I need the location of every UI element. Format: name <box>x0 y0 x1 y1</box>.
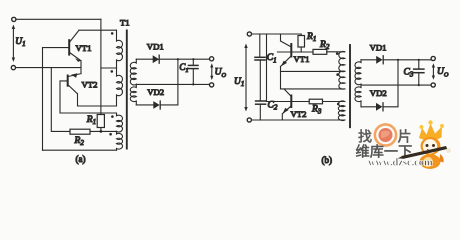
transformer winding S3 (b) <box>338 101 344 120</box>
svg-text:VD2: VD2 <box>147 87 164 97</box>
transformer winding S2 (b) <box>339 71 345 89</box>
wire capacitor rail upper <box>259 34 261 57</box>
wire center-tap riser / R1 feed <box>100 19 102 114</box>
wire VD1 cathode to output plus <box>159 58 209 60</box>
junction R1/R2 <box>100 130 103 133</box>
wire rail branch to R2 <box>51 68 70 132</box>
input terminal bottom (a) <box>11 66 15 70</box>
transformer winding S1 (b) <box>339 51 345 71</box>
svg-text:C1: C1 <box>179 62 188 74</box>
polarity dot primary top <box>111 32 114 35</box>
svg-text:U1: U1 <box>15 37 25 48</box>
wire R1 bottom stub (b) <box>300 47 302 52</box>
resistor R2 (b) <box>313 49 327 54</box>
svg-text:VD2: VD2 <box>370 88 387 98</box>
svg-text:C1: C1 <box>267 53 277 64</box>
watermark emblem ring <box>375 124 396 145</box>
svg-text:R1: R1 <box>86 115 96 126</box>
wire VT1 emitter to rail <box>80 61 82 74</box>
wire VT2 base line (b) <box>267 101 310 103</box>
svg-text:UO: UO <box>437 67 449 79</box>
polarity dot S3 <box>337 103 340 106</box>
svg-text:R2: R2 <box>74 136 85 147</box>
transformer core (b) <box>349 45 351 127</box>
junction VD2 return <box>177 58 179 60</box>
wire VD1 cathode to output (b) <box>383 59 431 61</box>
resistor R3 (b) <box>309 99 322 104</box>
wire VD2 return to top node (b) <box>383 60 398 107</box>
junction C1 bottom <box>192 83 194 85</box>
wire R1 bottom stub <box>100 128 102 132</box>
wire VT1 collector to primary top <box>79 29 117 31</box>
polarity dot feedback lower <box>109 133 112 136</box>
svg-text:R1: R1 <box>306 32 316 43</box>
junction C1 top <box>192 58 194 60</box>
capacitor C1 (b) <box>255 57 265 60</box>
transformer T1 primary winding top <box>117 30 123 68</box>
svg-text:片: 片 <box>398 129 412 146</box>
resistor R1 (b) <box>298 36 305 48</box>
wire top rail (b) <box>252 33 301 35</box>
wire VT2 base to feedback winding top <box>60 81 117 113</box>
wire R1 top stub (b) <box>300 34 302 36</box>
wire VT1 base <box>43 48 70 151</box>
svg-text:R3: R3 <box>311 105 322 116</box>
transformer T1 feedback winding upper <box>117 113 123 132</box>
polarity dot S1 <box>336 52 339 55</box>
polarity dot feedback upper <box>111 115 114 118</box>
wire R2 to feedback center tap <box>90 130 117 132</box>
wire R2 to winding S1 top <box>327 51 345 53</box>
svg-text:找: 找 <box>358 129 372 146</box>
wire R3 to winding S3 top <box>323 101 345 103</box>
watermark mascot <box>398 120 451 169</box>
input terminal top (b) <box>247 32 251 36</box>
svg-text:U1: U1 <box>234 77 244 88</box>
svg-text:(b): (b) <box>322 155 333 165</box>
transistor VT1 <box>69 30 81 62</box>
transformer T1 secondary winding <box>130 59 136 105</box>
junction C3 top <box>418 59 420 61</box>
transistor VT2 <box>68 73 81 94</box>
input terminal bottom (b) <box>247 118 251 122</box>
wire feedback winding bottom to VT1 base line <box>43 149 117 151</box>
wire bottom rail (b) <box>252 119 345 121</box>
diode VD2 (b) <box>376 103 383 111</box>
wire secondary center tap to output (b) <box>361 84 431 86</box>
U_O output arrow (b) <box>432 63 435 79</box>
output terminal plus (a) <box>210 57 214 61</box>
capacitor C1 (a) <box>189 59 199 84</box>
transformer T1 primary winding bottom <box>117 68 123 106</box>
wire secondary center tap to output minus <box>136 83 209 85</box>
U1 input voltage arrow <box>12 25 15 63</box>
diode VD1 (b) <box>376 56 383 64</box>
svg-text:C3: C3 <box>404 68 414 79</box>
transformer T1 feedback winding lower <box>117 131 123 150</box>
transformer T1 core <box>126 30 128 148</box>
wire VD2 return to top node <box>160 59 178 105</box>
output terminal plus (b) <box>431 56 435 60</box>
input terminal top (a) <box>12 17 16 21</box>
svg-text:VD1: VD1 <box>370 42 387 52</box>
polarity dot primary bottom <box>111 70 114 73</box>
junction C3 bottom <box>418 84 420 86</box>
wire midpoint to winding S1 bottom <box>281 70 345 72</box>
wire secondary bottom to VD2 <box>136 104 153 106</box>
svg-text:VT2: VT2 <box>82 80 98 90</box>
output terminal minus (a) <box>210 83 214 87</box>
transformer secondary winding (b) <box>355 60 361 107</box>
polarity dot S2 <box>336 73 339 76</box>
wire secondary top to VD1 <box>136 58 152 60</box>
wire bottom input rail <box>16 67 81 69</box>
wire VT1 base line (b) <box>278 51 314 53</box>
resistor R1 <box>97 115 104 128</box>
transistor VT1 (b) <box>281 34 292 67</box>
wire secondary top to VD1 (b) <box>361 59 376 61</box>
junction VD2 return (b) <box>397 59 399 61</box>
wire capacitor rail lower <box>259 104 261 120</box>
svg-text:VT1: VT1 <box>294 54 310 64</box>
svg-text:C2: C2 <box>268 101 278 112</box>
wire midpoint vertical (b) <box>280 67 282 89</box>
wire capacitor rail middle <box>259 60 261 101</box>
wire primary center tap <box>101 67 117 69</box>
resistor R2 <box>70 129 90 134</box>
U1 input arrow (b) <box>244 44 247 112</box>
svg-text:(a): (a) <box>76 154 86 164</box>
svg-text:R2: R2 <box>319 40 330 51</box>
capacitor C3 (b) <box>414 60 424 85</box>
wire secondary bottom to VD2 (b) <box>361 106 376 108</box>
diode VD2 <box>153 101 160 109</box>
diode VD1 <box>153 55 160 63</box>
svg-text:VT2: VT2 <box>291 109 307 119</box>
svg-text:T1: T1 <box>120 17 130 27</box>
svg-text:VD1: VD1 <box>147 42 164 52</box>
output terminal minus (b) <box>431 83 435 87</box>
svg-text:www.dzsc.com: www.dzsc.com <box>368 157 433 168</box>
wire bias from top rail to VT2 base <box>266 34 268 102</box>
wire VT2 collector to primary bottom <box>78 94 117 106</box>
wire from top terminal to center-tap riser <box>16 18 101 20</box>
svg-text:VT1: VT1 <box>76 43 92 53</box>
U_O output arrow (a) <box>210 63 213 80</box>
capacitor C2 (b) <box>256 101 266 104</box>
transistor VT2 (b) <box>282 89 291 120</box>
svg-text:UO: UO <box>215 67 227 79</box>
wire node line to winding S2 bottom <box>281 88 345 90</box>
